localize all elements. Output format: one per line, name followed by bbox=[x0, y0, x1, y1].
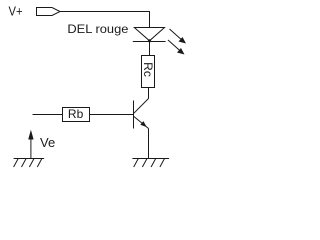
node V+ bbox=[9, 4, 23, 19]
svg-text:Rc: Rc bbox=[141, 62, 155, 77]
Ve source arrow bbox=[28, 130, 33, 159]
label DEL rouge bbox=[67, 22, 128, 36]
LED light arrow 1 bbox=[170, 29, 187, 44]
wire LED to Rc bbox=[149, 42, 151, 56]
svg-text:DEL rouge: DEL rouge bbox=[67, 22, 128, 36]
wire emitter to ground bbox=[148, 129, 150, 159]
wire V+ to LED corner bbox=[60, 12, 150, 28]
ground (emitter) bbox=[132, 159, 169, 168]
transistor Q1 collector line bbox=[134, 99, 149, 114]
junction dot at LED cathode bbox=[148, 39, 151, 42]
ground (input) bbox=[14, 159, 44, 168]
V+ connector tag bbox=[37, 8, 61, 16]
transistor Q1 emitter line with arrow bbox=[134, 117, 149, 129]
LED D1 cathode bar bbox=[133, 41, 166, 43]
transistor Q1 base bar bbox=[133, 101, 135, 129]
LED D1 triangle bbox=[134, 28, 164, 41]
svg-text:V+: V+ bbox=[9, 4, 23, 19]
LED light arrow 2 bbox=[168, 40, 185, 55]
svg-text:Rb: Rb bbox=[68, 107, 84, 121]
resistor Rc bbox=[141, 56, 155, 88]
svg-text:Ve: Ve bbox=[40, 135, 55, 150]
resistor Rb bbox=[63, 107, 90, 122]
wire Rc to collector bbox=[148, 88, 150, 99]
wire Rb to base bbox=[90, 114, 134, 116]
node Ve label bbox=[40, 135, 55, 150]
wire input to Rb bbox=[33, 114, 63, 116]
